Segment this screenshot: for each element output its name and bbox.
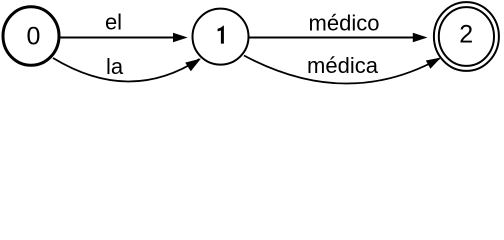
state 1 [193,9,249,65]
arrowhead médica into state 2 [426,58,441,69]
label 1 [218,26,224,44]
svg-text:médica: médica [307,53,379,78]
svg-text:0: 0 [26,23,40,51]
svg-text:el: el [105,10,122,35]
svg-text:la: la [106,54,124,79]
wire médica (1 to 2, curved) [244,56,440,84]
svg-text:2: 2 [459,21,473,49]
state 2 (accepting, double circle) outer [434,2,499,71]
arrowhead médico into state 2 [413,33,428,42]
arrowhead el into state 1 [173,33,188,42]
svg-text:médico: médico [309,11,380,36]
arrowhead la into state 1 [185,59,201,72]
state 2 inner circle [439,7,494,66]
wire la (0 to 1, curved) [53,58,200,82]
wire médico (1 to 2) [249,37,415,39]
state 0 (start state, bold circle) [3,7,59,66]
wire el (0 to 1) [60,37,177,39]
